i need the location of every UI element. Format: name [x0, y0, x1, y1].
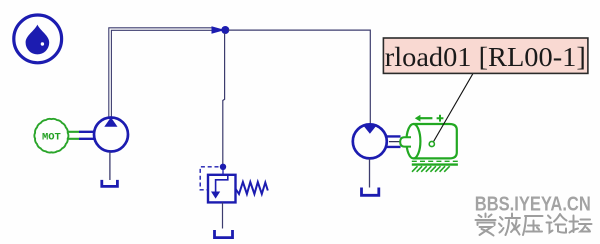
relief valve body [208, 175, 236, 203]
hydraulic motor M1 [353, 124, 387, 158]
junction node above valve [220, 164, 226, 170]
char lun [547, 214, 567, 233]
pilot line (dashed) [200, 167, 218, 190]
char ye [499, 214, 520, 236]
label rload01 box [383, 38, 588, 73]
motor shaft [387, 136, 401, 147]
wire junction->relief valve (with jog) [223, 33, 225, 164]
ground hatching [412, 166, 450, 172]
svg-text:MOT: MOT [42, 131, 61, 143]
relief valve internal arrow [216, 175, 228, 191]
tank under valve [215, 230, 233, 238]
wire node->valve [222, 170, 224, 175]
svg-text:BBS.IYEYA.CN: BBS.IYEYA.CN [475, 193, 591, 215]
prime mover MOT [34, 119, 68, 153]
pump P1 [94, 117, 128, 151]
watermark chinese 爱液压论坛 (drawn strokes) [476, 214, 592, 236]
ground under load: dashed line [412, 160, 458, 162]
flow arrow on wire [212, 26, 226, 34]
wire pump->junction (double line up and right) [109, 28, 212, 117]
svg-text:rload01 [RL00-1]: rload01 [RL00-1] [385, 41, 586, 72]
plus sign [437, 115, 444, 122]
rotary load body [400, 124, 457, 158]
ground solid line [412, 163, 458, 165]
load center pivot [429, 141, 434, 146]
char ai [476, 214, 496, 236]
shaft MOT->pump [68, 132, 94, 139]
fluid properties icon (drop in circle) [14, 15, 62, 63]
char ya [523, 216, 543, 235]
annotation leader line [433, 74, 473, 143]
wire junction->motor [228, 30, 370, 124]
valve drain wire [222, 202, 224, 228]
shaft center line [389, 141, 407, 143]
relief valve spring [236, 182, 268, 194]
motor drain wire [369, 159, 371, 188]
tank under pump [102, 180, 118, 187]
rotation arrow above load [420, 117, 433, 119]
char tan [570, 216, 592, 233]
junction node (3-way) [221, 26, 229, 34]
pump drain wire [109, 152, 111, 180]
tank under motor [362, 188, 379, 196]
